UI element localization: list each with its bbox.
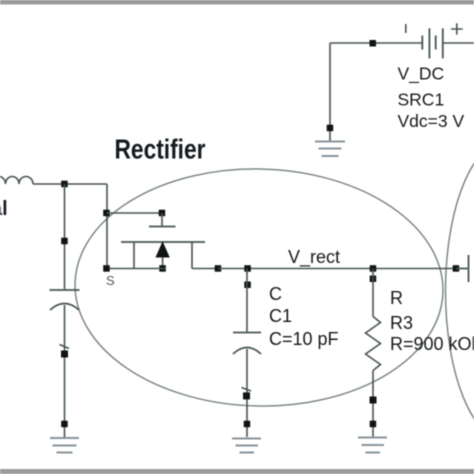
- transistor M1 body stub: [162, 257, 164, 269]
- capacitor left curved plate: [50, 304, 79, 311]
- junction dot gate node: [103, 210, 110, 217]
- wire battery down to ground: [329, 43, 331, 141]
- junction dot input node: [61, 181, 67, 188]
- transistor M1 gate stub: [161, 213, 163, 227]
- battery plus sign: [451, 23, 463, 34]
- svg-text:S: S: [106, 273, 115, 288]
- top gray bar: [0, 0, 474, 5]
- ellipse right block (partial): [446, 141, 474, 441]
- ground middle: [232, 439, 261, 453]
- wire input node down to capacitor: [64, 184, 66, 289]
- inductor L input: [0, 177, 33, 184]
- svg-text:V_rect: V_rect: [288, 247, 340, 268]
- ellipse Rectifier block: [72, 165, 445, 410]
- wire battery right: [443, 42, 474, 44]
- junction dot R3 wire upper: [370, 397, 377, 404]
- svg-text:R: R: [390, 288, 403, 308]
- battery V_DC SRC1: [422, 28, 443, 58]
- svg-text:V_DC: V_DC: [398, 64, 445, 85]
- wire inductor to transistor corner: [33, 183, 107, 185]
- capacitor C1 top plate: [233, 332, 261, 334]
- bottom gray bar: [0, 469, 474, 474]
- capacitor left top plate: [50, 289, 80, 291]
- wire R3 down to ground: [372, 371, 374, 438]
- tick left wire: [60, 345, 70, 349]
- junction dot C terminal: [244, 282, 251, 289]
- wire gate node to gate: [107, 212, 163, 214]
- svg-text:C=10 pF: C=10 pF: [269, 329, 339, 349]
- wire C1 down to ground: [246, 349, 248, 437]
- junction dot above battery ground: [327, 125, 334, 132]
- resistor R3 zigzag: [366, 317, 381, 371]
- svg-text:al: al: [0, 198, 8, 220]
- junction dot R terminal: [370, 276, 377, 283]
- svg-text:R=900 kOhm: R=900 kOhm: [390, 334, 474, 354]
- wire battery top horizontal: [330, 42, 422, 44]
- junction dot left branch mid: [61, 238, 67, 245]
- transistor M1 body diode arrow: [156, 243, 169, 258]
- junction dot R3 wire lower: [370, 421, 377, 428]
- wire top to gate corner: [106, 184, 108, 269]
- svg-text:C1: C1: [269, 306, 292, 326]
- transistor M1 channel: [121, 241, 205, 243]
- wire R branch down: [372, 269, 374, 317]
- ground battery: [315, 142, 345, 157]
- junction dot left wire lower: [61, 421, 67, 428]
- junction dot left wire upper: [61, 351, 68, 358]
- battery minus tick: [405, 24, 407, 33]
- transistor M1 gate plate: [149, 226, 176, 228]
- junction dot drain node: [215, 265, 222, 272]
- junction dot battery wire: [370, 40, 377, 47]
- junction dot R branch: [370, 265, 377, 272]
- junction dot gate terminal: [159, 210, 166, 217]
- svg-text:Rectifier: Rectifier: [115, 134, 206, 165]
- svg-text:SRC1: SRC1: [398, 90, 445, 110]
- tick C1 wire: [242, 388, 252, 392]
- junction dot C branch: [244, 265, 251, 272]
- wire drain to rail: [192, 268, 218, 270]
- terminal bar output: [456, 255, 469, 282]
- wire source rail: [107, 268, 167, 270]
- svg-text:Vdc=3 V: Vdc=3 V: [398, 111, 465, 131]
- ground left: [50, 438, 79, 453]
- junction dot body terminal: [159, 265, 166, 272]
- junction dot C1 wire lower: [244, 421, 251, 428]
- junction dot S node: [103, 265, 110, 272]
- junction dot C1 wire upper: [243, 392, 250, 399]
- wire C branch down: [246, 269, 248, 333]
- ground right: [358, 438, 387, 453]
- wire V_rect rail: [218, 268, 456, 270]
- junction dot output node: [453, 265, 460, 272]
- wire left capacitor down: [64, 305, 66, 437]
- transistor M1 source stub: [133, 242, 135, 269]
- transistor M1 drain stub: [191, 242, 193, 269]
- svg-text:C: C: [269, 284, 282, 304]
- capacitor C1 curved plate: [233, 348, 261, 355]
- svg-text:R3: R3: [390, 313, 413, 333]
